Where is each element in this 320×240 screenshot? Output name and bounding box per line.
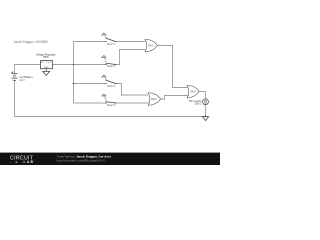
svg-text:Door 3: Door 3 (107, 84, 115, 88)
svg-text:Door 2: Door 2 (107, 64, 115, 68)
svg-text:GND: GND (44, 67, 49, 69)
svg-text:OR 3: OR 3 (190, 92, 196, 94)
svg-text:12 V: 12 V (19, 78, 25, 82)
svg-text:Jacob Duggan, 9400982: Jacob Duggan, 9400982 (13, 40, 48, 44)
svg-text:OR 1: OR 1 (148, 45, 154, 47)
svg-text:OR 2: OR 2 (151, 99, 157, 101)
svg-text:OUT: OUT (47, 62, 52, 64)
svg-text:Door 4: Door 4 (107, 103, 115, 107)
svg-text:7805: 7805 (43, 56, 49, 59)
svg-text:http://circuitlab.com/c88c1qkw: http://circuitlab.com/c88c1qkw3v7c7/ (57, 159, 106, 163)
svg-text:Door 1: Door 1 (107, 42, 115, 46)
svg-text:LAB: LAB (24, 160, 34, 164)
svg-text:100 Ω: 100 Ω (194, 102, 201, 106)
